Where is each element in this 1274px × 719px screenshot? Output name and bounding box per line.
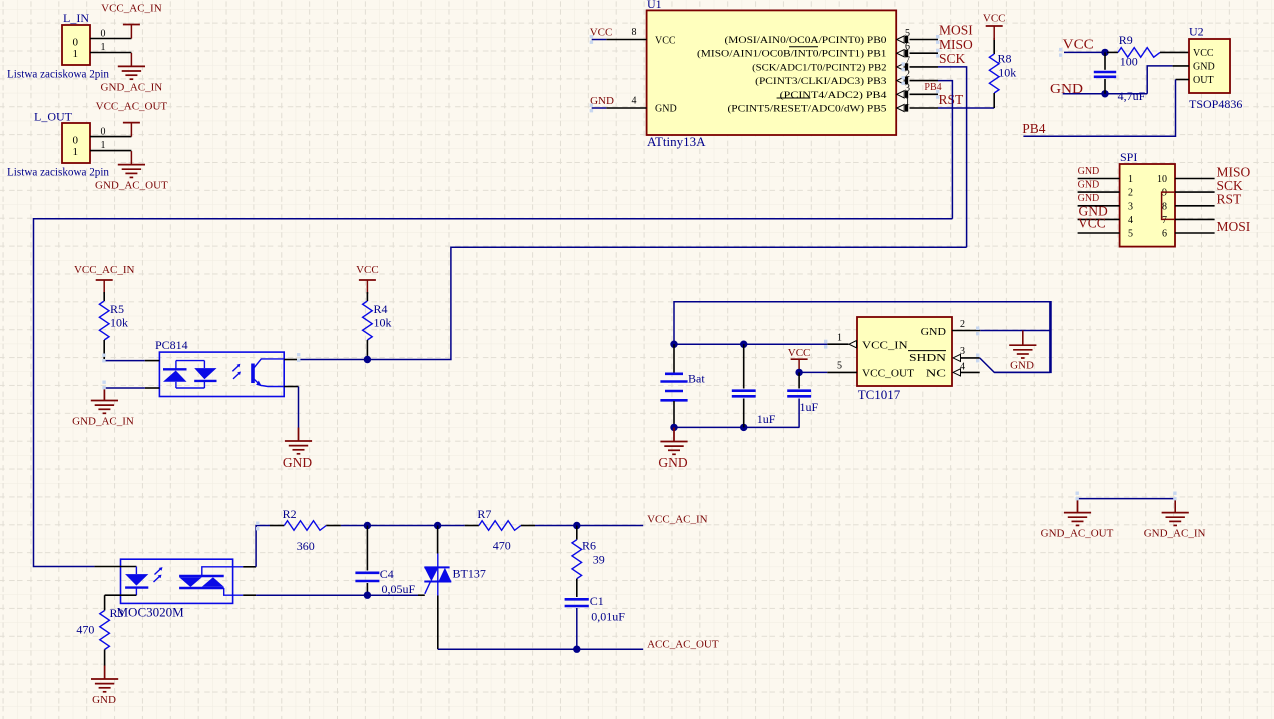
wire MOC pin4 to C4 and BT137 gate [256,594,418,596]
connector L_OUT [7,110,109,179]
svg-text:0: 0 [73,37,79,49]
svg-text:RST: RST [1217,192,1243,207]
svg-text:4: 4 [960,362,965,373]
junction VCC/C3 [795,369,802,376]
capacitor C1 [565,594,626,649]
svg-text:GND_AC_IN: GND_AC_IN [101,82,163,94]
pin 9 of SPI [1175,191,1215,193]
svg-text:SPI: SPI [1120,150,1137,164]
pin 4 GND of U1 [606,96,646,109]
ground GND_AC_IN at PC814 [72,387,134,428]
svg-text:GND: GND [1078,166,1100,177]
svg-text:6: 6 [1162,229,1167,240]
svg-text:0: 0 [73,135,79,147]
PC814 LED pair [163,361,217,388]
pin 7 of SPI [1175,218,1215,220]
svg-text:SHDN: SHDN [909,352,946,364]
pin 8 of SPI [1175,205,1215,207]
pin 1 of L_OUT [90,140,131,151]
wire VCC stub at pin 8 [592,39,607,41]
svg-text:GND: GND [1010,360,1034,372]
IC TC1017 [857,317,952,402]
power VCC_AC_IN [101,3,162,39]
wire VCC to R9 [1064,51,1105,53]
svg-text:BT137: BT137 [453,567,486,581]
svg-text:3: 3 [905,83,910,94]
pin 1 of SPI [1078,178,1120,180]
IC U1 ATtiny13A [647,0,897,149]
svg-text:10: 10 [1157,174,1167,185]
MOC3020M LED [125,567,148,596]
wire OUT of U2 to PB4 [1023,80,1175,137]
svg-text:0,05uF: 0,05uF [382,582,416,596]
svg-text:MOSI: MOSI [939,23,973,38]
pin 4 NC of TC1017 [953,362,980,376]
ground GND_AC_IN bottom right [1144,499,1206,540]
svg-text:SCK: SCK [939,51,966,66]
svg-text:100: 100 [1120,55,1138,69]
pin 4 of MOC3020M triac [243,594,256,596]
pin 2 PB3 of U1 [897,69,938,84]
svg-text:GND: GND [92,694,116,706]
power VCC at TC1017 out [788,347,811,373]
svg-text:PC814: PC814 [155,338,188,352]
wire MOC MT2 up to R2 [256,526,270,567]
svg-text:U1: U1 [647,0,662,11]
svg-text:PB4: PB4 [1022,121,1046,136]
wire battery bottom rail [674,426,800,428]
svg-text:10k: 10k [110,316,128,330]
ground GND at TC1017 [1009,331,1036,372]
svg-text:L_IN: L_IN [63,11,89,25]
svg-text:GND_AC_IN: GND_AC_IN [72,416,134,428]
svg-text:ATtiny13A: ATtiny13A [647,134,706,149]
svg-text:2: 2 [1128,188,1133,199]
svg-text:7: 7 [905,55,910,66]
snap marks [102,35,1176,530]
wire SHDN diagonal [980,358,1050,373]
pin 2 cathode of MOC3020M [105,594,137,596]
junction battery top [670,341,677,348]
svg-text:R7: R7 [477,507,491,521]
pin 0 of L_OUT [90,127,131,138]
svg-text:1: 1 [905,97,910,108]
optocoupler MOC3020M [110,559,233,620]
svg-text:39: 39 [593,553,605,567]
svg-text:MOSI: MOSI [1217,219,1251,234]
wire R7 to VCC_AC_IN [535,525,643,527]
pin 1 of L_IN [90,42,131,53]
junction C4 bottom [364,592,371,599]
wire GND stub at pin 4 [592,107,607,109]
pin OUT of U2 [1176,79,1190,81]
svg-text:VCC: VCC [788,347,811,359]
svg-text:360: 360 [297,539,315,553]
pin 3 SHDN of TC1017 [953,346,980,361]
svg-text:1uF: 1uF [800,400,819,414]
capacitor C2 1uF [732,344,776,427]
pin 8 VCC of U1 [606,27,646,40]
svg-text:RST: RST [939,92,965,107]
pin 10 of SPI [1175,178,1215,180]
svg-text:GND: GND [1193,62,1215,73]
svg-text:1: 1 [837,333,842,344]
svg-text:GND_AC_IN: GND_AC_IN [1144,528,1206,540]
svg-text:R5: R5 [110,302,124,316]
svg-text:VCC: VCC [983,13,1006,25]
svg-text:4,7uF: 4,7uF [1118,89,1146,103]
svg-text:OUT: OUT [1193,75,1214,86]
junction GND/C9 [1101,90,1108,97]
MOC3020M light arrows [154,567,163,582]
pin 1 VCC_IN of TC1017 [827,333,856,348]
wire VCC node to TC1017 VCC_OUT [799,371,827,373]
connector L_IN [7,11,109,81]
wire PB3 net to MOC3020M [34,219,953,567]
svg-text:GND: GND [655,104,677,115]
svg-text:R2: R2 [283,507,297,521]
svg-text:470: 470 [76,623,94,637]
wire PB3 from pin 2 down to MOC net [938,81,952,219]
junction C2 top [740,341,747,348]
svg-text:10k: 10k [374,316,392,330]
svg-text:C4: C4 [380,567,394,581]
svg-text:VCC_AC_IN: VCC_AC_IN [647,514,708,526]
pin 5 PB0 of U1 [897,28,938,43]
svg-text:TSOP4836: TSOP4836 [1189,97,1242,111]
svg-text:(MISO/AIN1/OC0B/INT0/PCINT1) P: (MISO/AIN1/OC0B/INT0/PCINT1) PB1 [697,49,887,60]
svg-text:R9: R9 [1119,33,1133,47]
svg-text:C1: C1 [590,594,604,608]
pin GND of U2 [1173,65,1189,67]
wire battery node to TC1017 VCC_IN [674,343,827,345]
svg-text:7: 7 [1162,215,1167,226]
pin 2 of PC814 [145,387,160,389]
pin 3 PB4 of U1 [897,83,938,98]
wire bottom ACC_AC_OUT [438,648,643,650]
wire TC1017 GND to ground [980,330,1050,332]
svg-text:2: 2 [905,69,910,80]
ground GND_AC_IN [101,53,163,94]
svg-text:GND: GND [283,455,312,470]
svg-text:9: 9 [1162,188,1167,199]
triac BT137 [424,526,486,650]
svg-text:MOC3020M: MOC3020M [117,605,185,620]
svg-text:10k: 10k [998,66,1016,80]
power VCC above R8 [983,13,1006,41]
svg-text:1: 1 [101,42,106,53]
svg-text:1uF: 1uF [757,412,776,426]
pin 2 GND of TC1017 [952,319,980,331]
pin 0 of L_IN [90,29,131,40]
svg-text:MISO: MISO [939,37,973,52]
svg-text:1: 1 [73,48,79,60]
internal tie pins 9-7 of SPI [1162,192,1175,219]
power VCC above R4 [356,264,379,294]
power VCC_AC_OUT [96,101,168,137]
svg-text:R6: R6 [582,539,596,553]
ground GND under battery [658,427,687,470]
pin 6 MT2 of MOC3020M [243,566,256,568]
svg-text:VCC: VCC [1063,37,1094,52]
svg-text:GND: GND [658,455,687,470]
MOC3020M triac [179,567,243,595]
svg-text:Listwa zaciskowa 2pin: Listwa zaciskowa 2pin [7,165,109,179]
IC U2 TSOP4836 [1189,25,1242,112]
svg-text:1: 1 [101,140,106,151]
junction R6 top [573,522,580,529]
svg-text:5: 5 [905,28,910,39]
wire GND under C9 [1063,93,1148,95]
wire MOC cathode corner [104,595,106,610]
capacitor C4 [355,526,415,597]
pin 1 anode of MOC3020M [94,566,136,568]
svg-text:(MOSI/AIN0/OC0A/PCINT0) PB0: (MOSI/AIN0/OC0A/PCINT0) PB0 [725,35,887,46]
ground GND at PC814 emitter [283,428,312,471]
connector SPI header [1120,150,1175,247]
wire SCK from pin 7 down to PC814 net [938,67,967,247]
wire battery top loop [674,302,1051,373]
BT137 gate [418,582,431,596]
svg-text:L_OUT: L_OUT [34,110,73,124]
optocoupler PC814 [155,338,284,397]
wire joining AC grounds [1078,498,1176,500]
junction battery bottom [670,424,677,431]
wire RST from pin 1 to R8 [938,107,994,109]
resistor R4 [363,292,392,360]
wire PC814 emitter down [298,387,300,429]
battery Bat [660,344,705,427]
svg-text:2: 2 [960,319,965,330]
wire SHDN net vertical [1049,302,1051,373]
svg-text:Bat: Bat [688,372,705,386]
svg-text:U2: U2 [1189,25,1204,39]
svg-text:470: 470 [493,539,511,553]
ground GND_AC_OUT bottom right [1041,499,1114,540]
svg-text:ACC_AC_OUT: ACC_AC_OUT [647,639,719,651]
power VCC_AC_IN above R5 [74,264,135,294]
svg-text:VCC: VCC [655,36,676,47]
svg-text:VCC_AC_IN: VCC_AC_IN [101,3,162,15]
pin 3 emitter of PC814 [284,386,298,388]
capacitor 4,7uF [1094,52,1146,103]
capacitor C3 1uF [787,372,818,427]
pin 5 VCC_OUT of TC1017 [827,361,857,373]
svg-text:4: 4 [632,96,637,107]
pin 6 of SPI [1175,232,1215,234]
svg-text:(SCK/ADC1/T0/PCINT2) PB2: (SCK/ADC1/T0/PCINT2) PB2 [752,62,887,73]
resistor R7 [465,507,535,553]
svg-text:VCC_AC_OUT: VCC_AC_OUT [96,101,168,113]
svg-text:1: 1 [1128,174,1133,185]
svg-text:8: 8 [632,27,637,38]
svg-text:0: 0 [101,127,106,138]
svg-text:VCC: VCC [356,264,379,276]
svg-text:VCC: VCC [1193,48,1214,59]
resistor R3 [76,611,109,667]
svg-text:(PCINT5/RESET/ADC0/dW) PB5: (PCINT5/RESET/ADC0/dW) PB5 [728,104,887,115]
junction VCC/C9 [1101,49,1108,56]
svg-text:0: 0 [101,29,106,40]
pin 2 of SPI [1078,191,1120,193]
svg-text:VCC_IN: VCC_IN [862,340,908,352]
svg-text:6: 6 [905,42,910,53]
svg-text:GND: GND [590,95,614,107]
junction C4 top [364,522,371,529]
ground GND under R3 [91,666,118,706]
svg-text:NC: NC [926,368,946,380]
resistor R5 [99,292,128,361]
resistor R2 [270,507,341,553]
pin 3 of SPI [1078,205,1120,207]
svg-text:1: 1 [73,146,79,158]
resistor R6 [572,526,605,598]
pin 7 PB2 of U1 [897,55,938,70]
svg-text:0,01uF: 0,01uF [591,610,625,624]
svg-text:R4: R4 [374,302,388,316]
svg-text:TC1017: TC1017 [858,387,901,402]
pin 6 PB1 of U1 [897,42,938,57]
svg-text:GND_AC_OUT: GND_AC_OUT [95,180,168,192]
pin 4 collector of PC814 [284,359,298,361]
wire PC814 collector to R4 and SCK net [299,247,967,359]
svg-text:(PCINT4/ADC2) PB4: (PCINT4/ADC2) PB4 [780,90,887,101]
resistor R9 [1107,33,1189,69]
wire PC814 pin2 to ground [104,387,144,389]
svg-text:GND_AC_OUT: GND_AC_OUT [1041,528,1114,540]
pin 1 PB5 of U1 [897,97,938,112]
svg-text:R8: R8 [998,52,1012,66]
svg-text:8: 8 [1162,201,1167,212]
resistor R8 [989,38,1016,108]
PC814 phototransistor [251,359,284,387]
svg-text:VCC_AC_IN: VCC_AC_IN [74,264,135,276]
PC814 light arrows [232,364,241,379]
ground GND_AC_OUT [95,151,168,191]
svg-text:5: 5 [837,361,842,372]
junction C2 bottom [740,424,747,431]
junction R4/PC814 [364,356,371,363]
svg-text:GND: GND [1078,180,1100,191]
pin 1 of PC814 [145,360,160,362]
junction C1 bottom [573,646,580,653]
wire R5 to PC814 pin1 [104,360,145,362]
svg-text:Listwa zaciskowa 2pin: Listwa zaciskowa 2pin [7,67,109,81]
wire GND to U2 pin [1147,66,1172,94]
wire R2 to R7 [341,525,465,527]
svg-text:3: 3 [960,346,965,357]
pin 4 of SPI [1078,218,1120,220]
svg-text:VCC_OUT: VCC_OUT [862,368,914,380]
svg-text:4: 4 [1128,215,1133,226]
svg-text:VCC: VCC [1078,216,1106,231]
svg-text:5: 5 [1128,229,1133,240]
junction BT137 top [434,522,441,529]
svg-text:(PCINT3/CLKI/ADC3) PB3: (PCINT3/CLKI/ADC3) PB3 [755,76,887,87]
svg-text:GND: GND [921,326,946,338]
pin 5 of SPI [1078,232,1120,234]
svg-text:3: 3 [1128,201,1133,212]
